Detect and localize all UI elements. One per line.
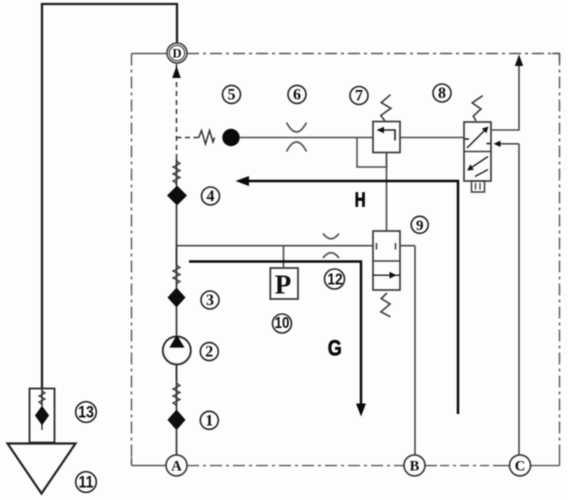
svg-text:2: 2 <box>205 344 213 361</box>
svg-text:9: 9 <box>416 218 424 234</box>
svg-text:P: P <box>275 270 292 300</box>
svg-text:A: A <box>171 459 182 475</box>
svg-text:3: 3 <box>206 292 214 309</box>
svg-text:6: 6 <box>293 86 301 103</box>
svg-text:11: 11 <box>79 474 94 492</box>
svg-text:5: 5 <box>228 86 236 103</box>
svg-text:D: D <box>172 47 181 61</box>
svg-text:8: 8 <box>438 85 446 102</box>
svg-text:7: 7 <box>355 88 363 105</box>
svg-text:B: B <box>410 459 420 475</box>
svg-text:10: 10 <box>275 315 290 332</box>
svg-text:1: 1 <box>205 412 213 429</box>
svg-text:C: C <box>515 459 525 475</box>
svg-text:G: G <box>328 337 342 361</box>
svg-text:H: H <box>355 188 366 211</box>
svg-text:12: 12 <box>327 271 342 289</box>
svg-text:13: 13 <box>78 404 94 422</box>
svg-text:4: 4 <box>207 188 215 205</box>
